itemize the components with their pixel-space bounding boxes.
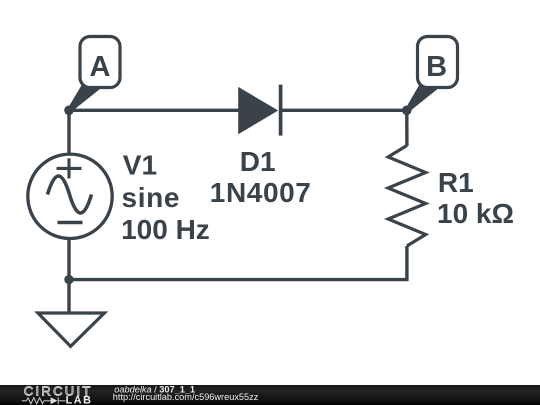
svg-text:100 Hz: 100 Hz xyxy=(121,214,210,245)
svg-text:D1: D1 xyxy=(240,146,276,177)
logo doodle wire xyxy=(22,397,66,404)
node B label xyxy=(407,37,457,110)
wire top-right (diode cathode to node B) xyxy=(280,109,407,112)
svg-text:http://circuitlab.com/c596wreu: http://circuitlab.com/c596wreux55zz xyxy=(113,392,259,402)
ground xyxy=(38,313,105,346)
svg-text:10 kΩ: 10 kΩ xyxy=(437,198,514,229)
svg-text:A: A xyxy=(90,51,111,83)
diode D1 xyxy=(238,85,280,136)
svg-text:V1: V1 xyxy=(123,149,157,180)
wire node B down to resistor xyxy=(405,110,409,146)
svg-text:R1: R1 xyxy=(438,167,474,198)
logo doodle diode xyxy=(51,397,58,404)
junction dot (V1 to bottom rail) xyxy=(64,275,73,284)
node B dot xyxy=(402,106,412,116)
svg-text:1N4007: 1N4007 xyxy=(210,177,312,208)
wire bottom rail xyxy=(69,246,407,280)
node A dot xyxy=(64,106,74,116)
voltage source V1 xyxy=(28,154,112,238)
wire V1 bottom to bottom rail xyxy=(67,238,70,280)
svg-text:B: B xyxy=(426,51,447,83)
wire node A down to V1 top xyxy=(67,110,70,155)
node A label xyxy=(70,37,120,110)
wire top-left (node A to diode anode) xyxy=(69,109,240,112)
wire ground stem xyxy=(67,280,70,312)
resistor R1 xyxy=(388,146,426,247)
svg-text:sine: sine xyxy=(122,182,181,213)
svg-text:LAB: LAB xyxy=(66,395,93,405)
